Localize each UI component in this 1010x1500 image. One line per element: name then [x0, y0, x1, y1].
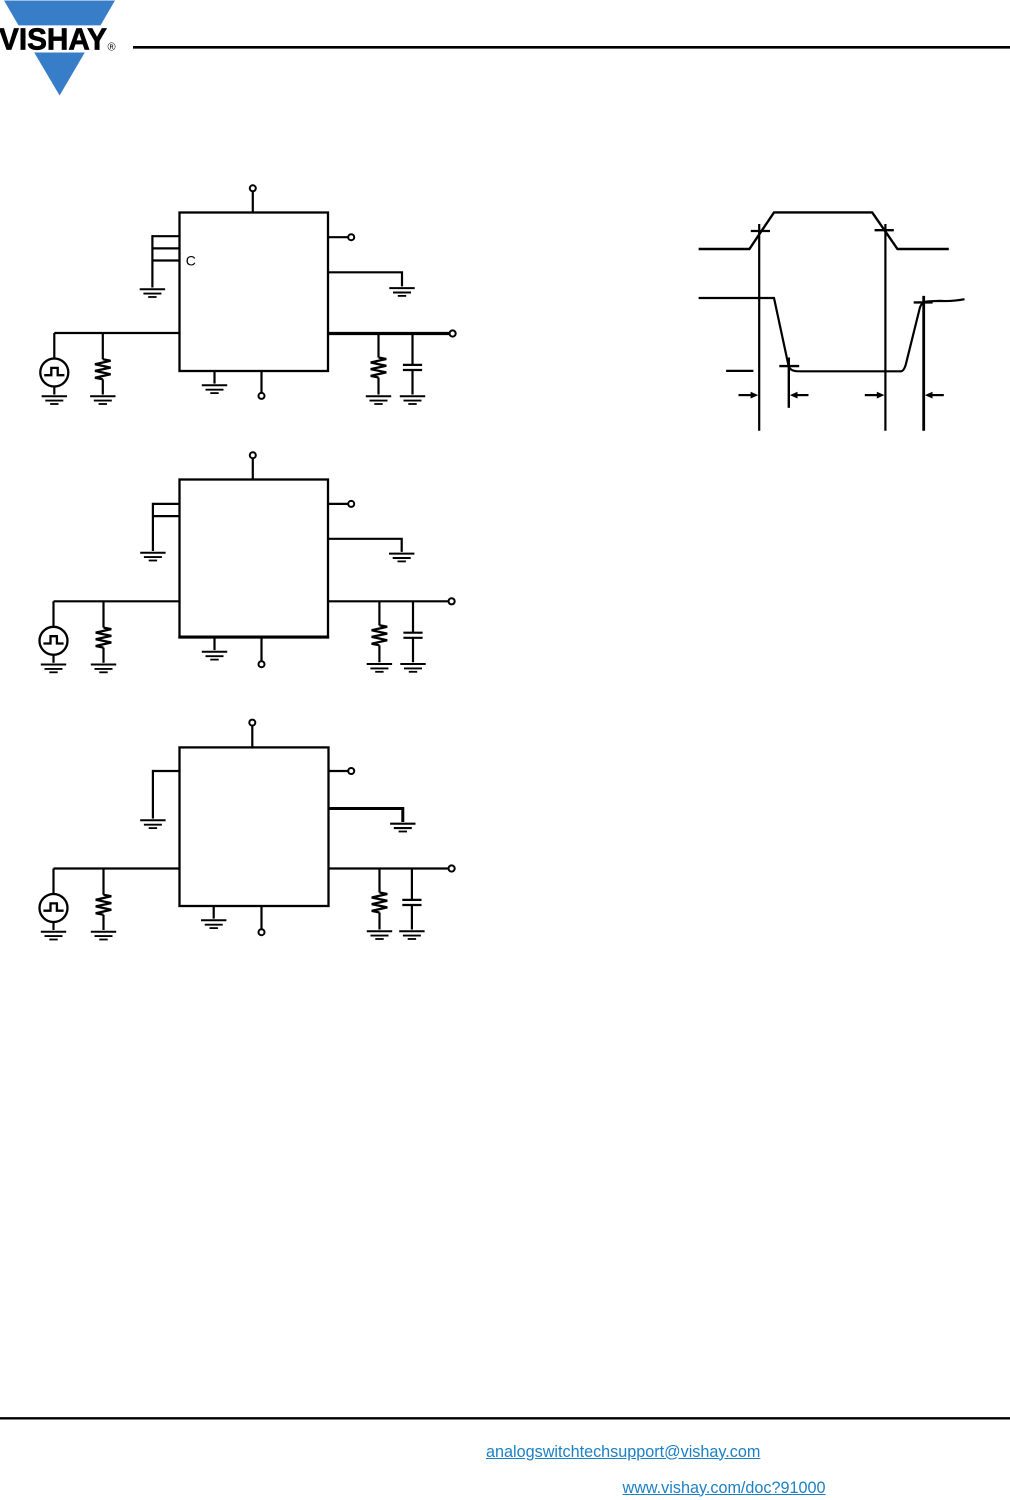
wire address line 2	[153, 515, 180, 517]
ground load resistor	[367, 931, 392, 939]
terminal V+	[250, 185, 256, 191]
wire pulse source bottom lead	[52, 655, 54, 663]
ground load capacitor	[399, 931, 424, 939]
footer link document url	[623, 1479, 826, 1498]
wire load resistor top lead	[377, 334, 379, 358]
wire output net	[329, 867, 449, 869]
wire source resistor bottom lead	[102, 379, 104, 394]
wire box bottom ground lead	[213, 906, 215, 919]
reference dash low level	[726, 370, 753, 372]
resistor RL load	[372, 625, 388, 645]
ground box bottom	[202, 385, 227, 393]
terminal output	[450, 330, 456, 336]
wire pulse source bottom lead	[53, 387, 55, 395]
wire pulse source bottom lead	[52, 922, 54, 930]
terminal output	[449, 598, 455, 604]
ground load resistor	[366, 396, 391, 404]
resistor RL load	[372, 893, 388, 913]
wire address line 1	[153, 503, 180, 505]
wire bottom terminal lead	[260, 906, 262, 929]
measure line t3	[884, 224, 886, 431]
wire address line 1	[152, 235, 179, 237]
wire load capacitor top lead	[412, 602, 414, 633]
ground source resistor	[91, 932, 116, 940]
IC box U2	[178, 480, 329, 638]
IC box U1	[180, 213, 329, 372]
wire load capacitor bottom lead	[411, 905, 413, 930]
wire load resistor top lead	[378, 869, 380, 893]
waveform switch output	[699, 298, 965, 371]
arrow tON right	[790, 392, 809, 399]
wire right mid to ground bold	[329, 809, 403, 823]
header rule	[133, 46, 1010, 49]
wire source resistor top lead	[102, 869, 104, 895]
terminal V+	[250, 452, 256, 458]
footer rule	[0, 1417, 1010, 1419]
ground pulse source	[42, 396, 67, 404]
wire bottom terminal lead	[260, 638, 262, 662]
ground right mid	[389, 288, 414, 296]
wire input net	[54, 332, 179, 334]
pulse generator VIN	[40, 359, 68, 387]
terminal right top	[348, 234, 354, 240]
wire right top pin	[328, 236, 348, 238]
wire top pin stub	[251, 726, 253, 748]
tick rising edge 50%	[751, 230, 770, 232]
wire load capacitor bottom lead	[412, 638, 414, 663]
ground box bottom	[202, 652, 227, 660]
measure line t4	[922, 296, 925, 431]
wire address line 2	[152, 247, 179, 249]
wire load resistor bottom lead	[377, 378, 379, 395]
wire output net bold	[328, 332, 449, 335]
tick output falling 90%	[779, 365, 799, 367]
wire address line 3	[152, 259, 179, 261]
measure line t1	[758, 224, 760, 431]
resistor RS source termination	[95, 359, 111, 379]
ground load capacitor	[400, 664, 425, 672]
ground load capacitor	[400, 396, 425, 404]
wire load capacitor bottom lead	[411, 370, 413, 395]
terminal output	[449, 865, 455, 871]
resistor RS source termination	[96, 628, 112, 648]
IC box U3	[180, 747, 329, 906]
ground left bus	[140, 289, 165, 297]
ground source resistor	[90, 396, 115, 404]
capacitor CL load	[402, 900, 421, 905]
wire address line	[153, 770, 180, 772]
wire pulse source top lead	[52, 601, 54, 627]
wire output net	[328, 600, 449, 602]
ground left bus	[140, 553, 165, 561]
tick output rising 90%	[914, 301, 933, 303]
wire source resistor bottom lead	[102, 648, 104, 663]
terminal right top	[348, 501, 354, 507]
Vishay logo lower triangle	[34, 53, 85, 96]
wire pulse source top lead	[52, 869, 54, 895]
wire right mid to ground	[328, 272, 402, 286]
Vishay logo upper triangle	[4, 1, 115, 26]
measure line t2	[788, 358, 790, 408]
wire source resistor top lead	[102, 333, 104, 359]
wire load resistor top lead	[378, 602, 380, 626]
terminal bottom	[259, 393, 265, 399]
wire right top pin	[329, 770, 349, 772]
wire box bottom ground lead	[213, 371, 215, 384]
ground source resistor	[91, 665, 116, 673]
waveform logic input	[699, 212, 949, 249]
svg-text:®: ®	[108, 42, 116, 54]
terminal right top	[348, 768, 354, 774]
terminal bottom	[259, 929, 265, 935]
wire load capacitor top lead	[411, 334, 413, 365]
wire bottom terminal lead	[260, 371, 262, 393]
tick falling edge 50%	[875, 229, 894, 231]
wire source resistor top lead	[102, 601, 104, 627]
Vishay logo wordmark VISHAY	[0, 22, 107, 56]
wire box bottom ground lead	[213, 638, 215, 651]
ground right mid	[389, 554, 414, 562]
wire load capacitor top lead	[411, 869, 413, 900]
pulse generator VIN	[40, 627, 68, 655]
wire input net	[54, 600, 180, 602]
Vishay logo registered mark	[108, 42, 116, 54]
terminal V+	[249, 720, 255, 726]
wire right top pin	[328, 503, 348, 505]
resistor RS source termination	[96, 895, 112, 915]
arrow tOFF left	[865, 392, 885, 399]
ground left	[140, 820, 165, 828]
wire input net	[54, 867, 180, 869]
arrow tON left	[739, 392, 759, 399]
wire left bus down	[151, 235, 153, 287]
wire left down to ground	[152, 770, 154, 819]
wire load resistor bottom lead	[378, 645, 380, 662]
ground pulse source	[41, 932, 66, 940]
pulse generator VIN	[40, 894, 68, 922]
wire pulse source top lead	[53, 333, 55, 359]
capacitor CL load	[403, 633, 422, 638]
wire right mid to ground	[328, 539, 402, 552]
ground pulse source	[41, 665, 66, 673]
capacitor CL load	[403, 365, 422, 370]
arrow tOFF right	[925, 392, 944, 399]
wire load resistor bottom lead	[378, 913, 380, 930]
wire left bus down	[152, 503, 154, 551]
wire top pin stub	[252, 458, 254, 479]
wire top pin stub	[252, 191, 254, 212]
resistor RL load	[371, 358, 387, 378]
terminal bottom	[259, 661, 265, 667]
footer link email	[486, 1443, 760, 1462]
ground box bottom	[201, 920, 226, 928]
svg-text:C: C	[186, 252, 196, 268]
ground load resistor	[367, 664, 392, 672]
wire source resistor bottom lead	[102, 915, 104, 930]
ground right mid	[390, 824, 415, 832]
svg-text:VISHAY: VISHAY	[0, 22, 107, 56]
